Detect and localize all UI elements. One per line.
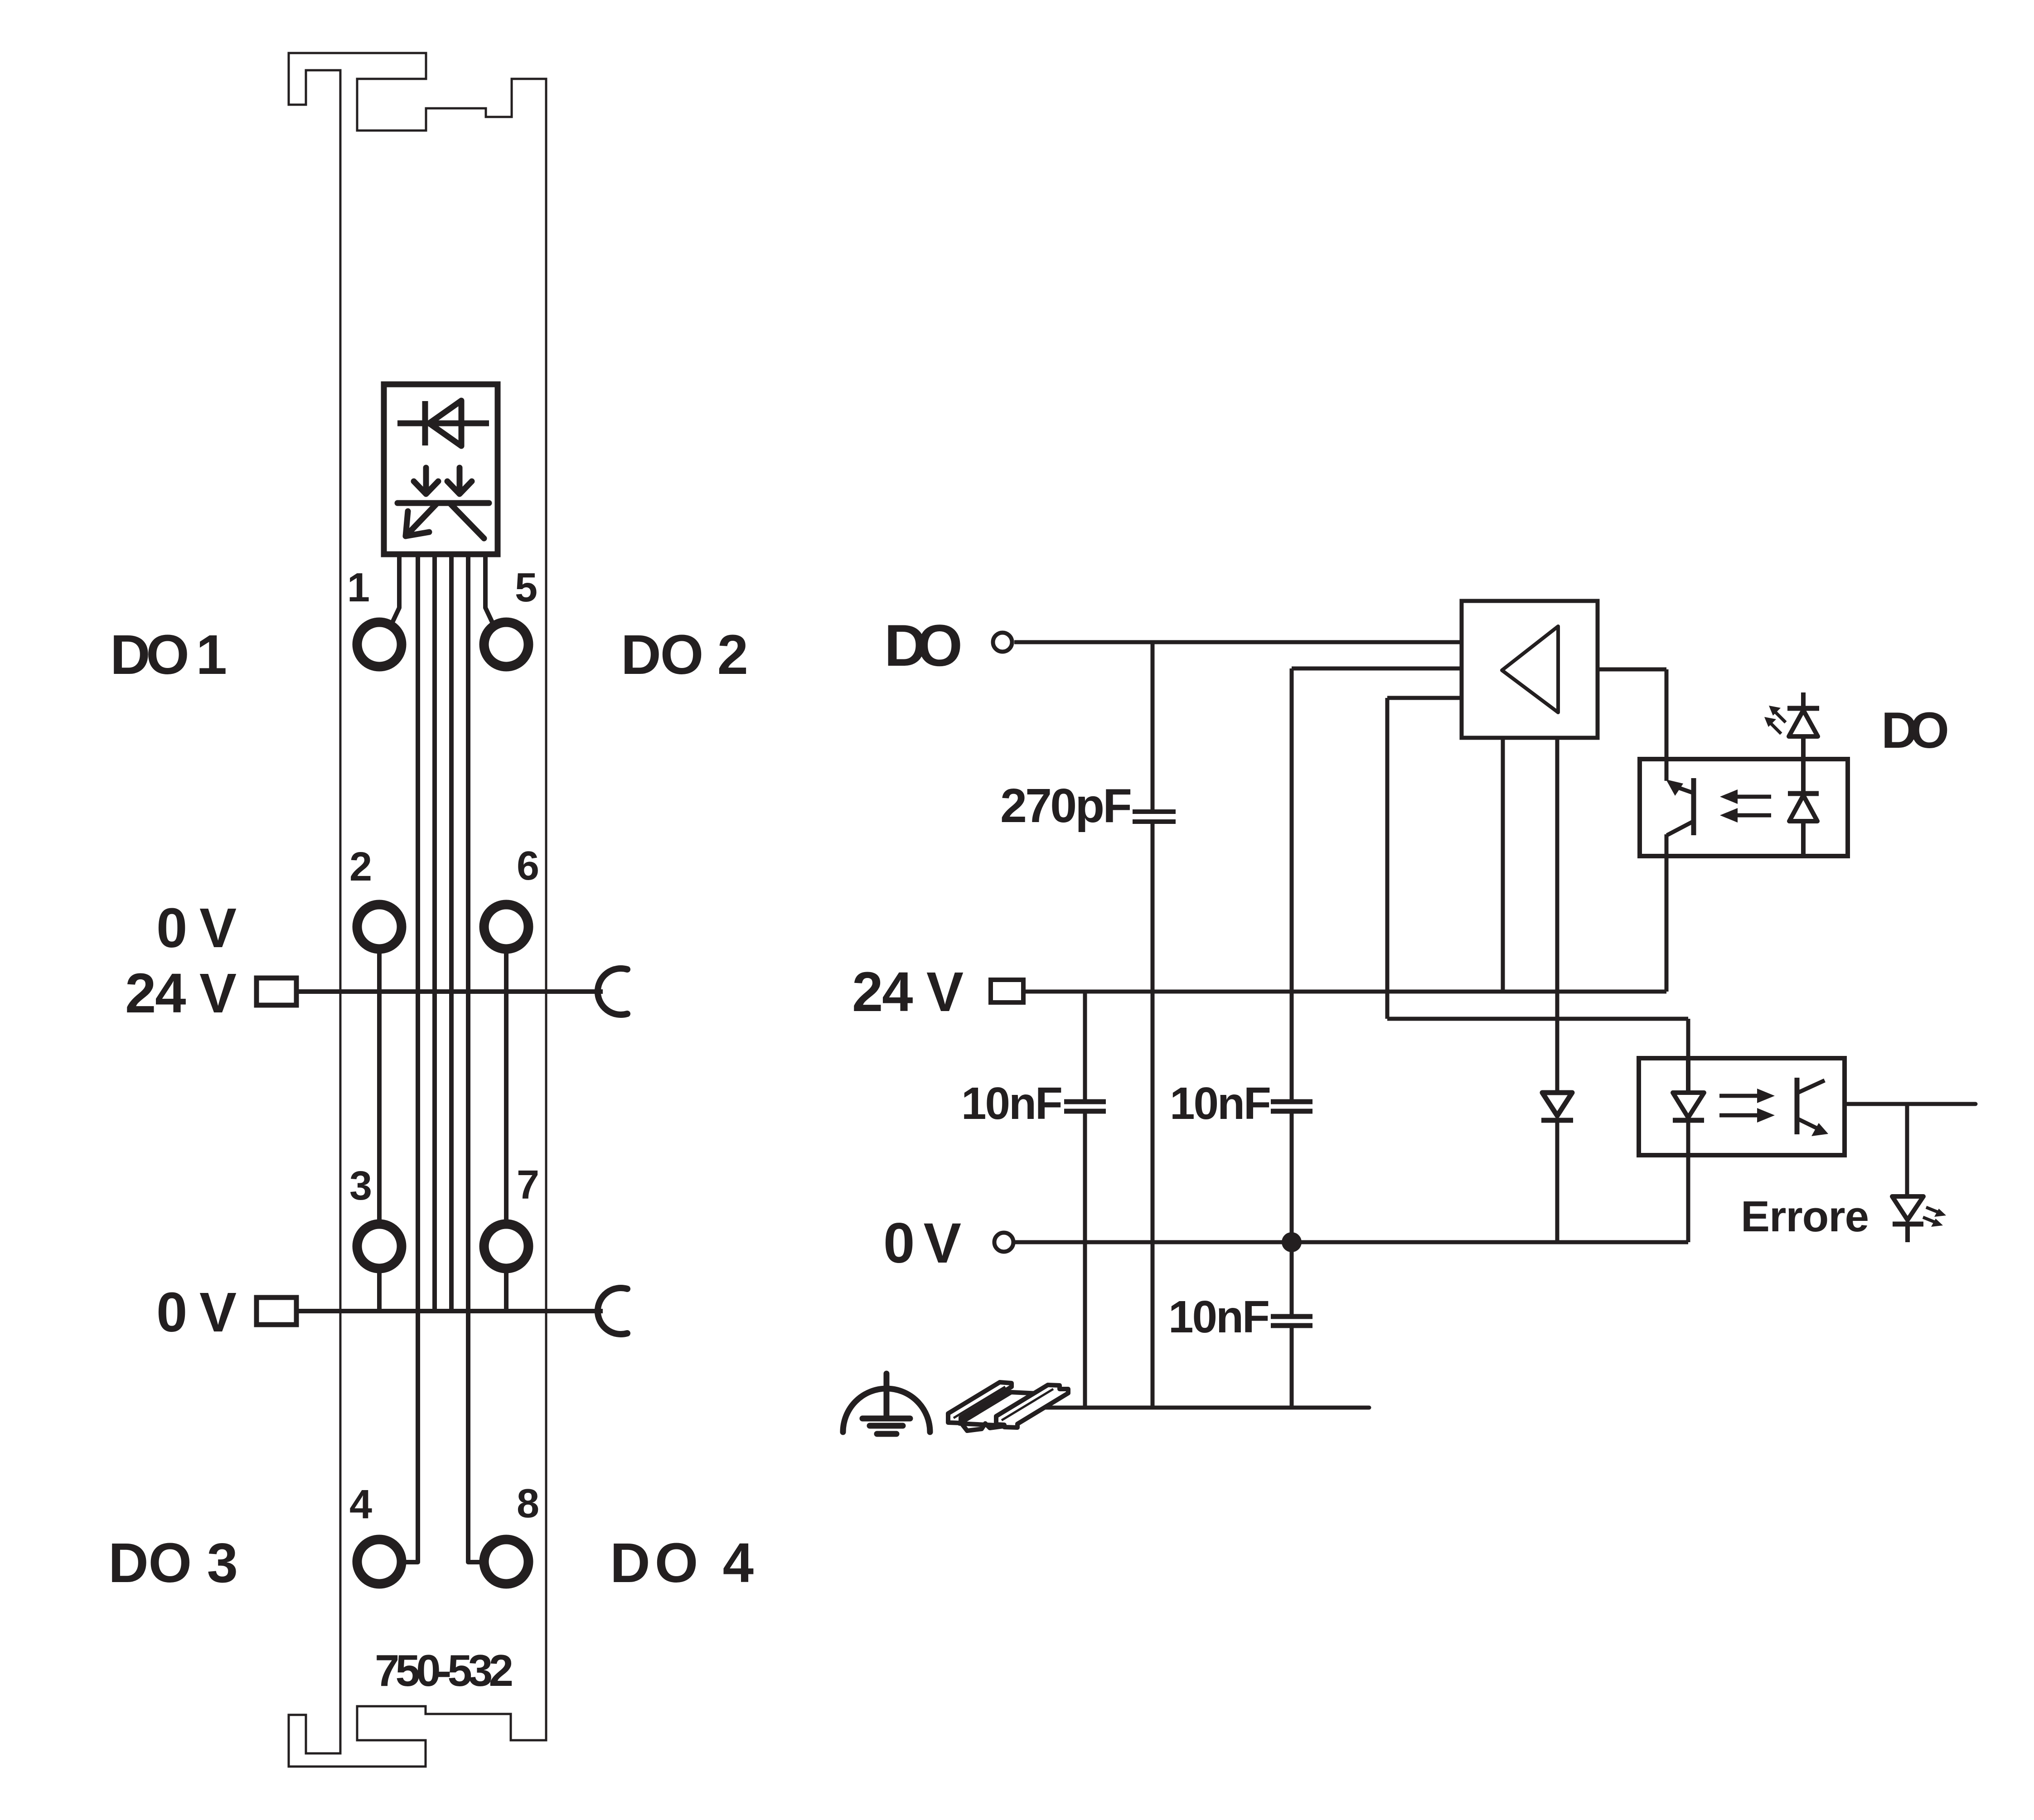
24V power jumper contact (square) <box>257 978 296 1005</box>
contact 6 <box>484 905 528 949</box>
wire between C3 and C4 <box>1290 1111 1294 1317</box>
capacitor C4 10nF <box>1271 1317 1312 1326</box>
wire amplifier output <box>1598 669 1666 781</box>
0V rail wire <box>1015 1240 1688 1244</box>
module outline <box>289 53 546 1767</box>
0V bus wire <box>296 1309 603 1313</box>
24V power jumper contact (arc) <box>598 968 627 1015</box>
amplifier triangle <box>1502 626 1558 712</box>
wire 270pF branch lower <box>1151 822 1155 1408</box>
wire LED D5 cathode to 0V rail <box>1686 1120 1690 1242</box>
light arrows of LED D4 <box>1764 706 1786 734</box>
earth ground symbol <box>843 1374 930 1434</box>
contact 5 <box>484 622 528 667</box>
wire pin1 from U1 to contact 1 <box>392 554 399 624</box>
svg-text:5: 5 <box>515 565 538 610</box>
svg-text:DO: DO <box>1881 702 1949 759</box>
svg-text:DO 2: DO 2 <box>621 624 748 686</box>
wire pin2 from U1 to contact 4 <box>405 554 418 1562</box>
light arrows into Q1 <box>1720 789 1771 823</box>
capacitor C3 10nF <box>1271 1102 1312 1111</box>
svg-text:10nF: 10nF <box>961 1078 1063 1129</box>
terminal DO (open circle) <box>993 633 1012 652</box>
svg-text:8: 8 <box>517 1481 539 1526</box>
svg-text:3: 3 <box>349 1163 372 1209</box>
wire contact 7 to 0V rail <box>504 1272 508 1311</box>
wire pin3 from U1 to 0V rail <box>432 554 437 1311</box>
svg-text:1: 1 <box>347 565 370 610</box>
amplifier box U2 <box>1462 601 1598 738</box>
wire phototransistor emitter to 24V rail <box>1665 834 1669 992</box>
wire pin4 from U1 to 0V rail <box>449 554 454 1311</box>
light arrows of LED D6 <box>1923 1207 1946 1227</box>
light arrows from D5 <box>1719 1089 1775 1123</box>
svg-text:24 V: 24 V <box>852 961 964 1023</box>
phototransistor Q2 <box>1797 1078 1828 1136</box>
diode D1 (suppressor diode inside U1) <box>397 401 489 446</box>
svg-text:0 V: 0 V <box>156 897 237 959</box>
svg-text:6: 6 <box>517 843 539 889</box>
ground rail wire <box>1043 1406 1369 1410</box>
wire pin5 from U1 to contact 8 <box>468 554 480 1562</box>
LED D4 (DO indicator) <box>1787 692 1819 760</box>
wire amplifier power to 24V rail <box>1501 738 1505 992</box>
junction node on 0V rail <box>1282 1232 1302 1252</box>
LED D6 (error indicator) <box>1892 1196 1923 1242</box>
contact 1 <box>357 622 402 667</box>
svg-text:270pF: 270pF <box>1000 779 1132 833</box>
svg-text:0 V: 0 V <box>156 1282 237 1344</box>
capacitor C2 10nF <box>1064 1102 1106 1111</box>
diode D2 <box>1541 1093 1573 1120</box>
wire amplifier input 3 to error optocoupler <box>1387 698 1688 1058</box>
wire to error LED <box>1905 1104 1909 1196</box>
svg-text:750-532: 750-532 <box>375 1646 513 1695</box>
svg-text:10nF: 10nF <box>1168 1292 1270 1342</box>
0V power jumper contact (arc) <box>598 1288 627 1334</box>
wire 10nF branch 1 upper <box>1083 992 1087 1102</box>
optocoupler OK1 box (DO) <box>1640 759 1848 856</box>
wire 24V to amplifier input 2 <box>1292 668 1462 1102</box>
contact 7 <box>484 1224 528 1268</box>
terminal 24V (square) <box>991 980 1023 1002</box>
protection circuit box U1 <box>384 384 498 554</box>
contact 3 <box>357 1224 402 1268</box>
24V bus wire <box>296 989 603 994</box>
optocoupler OK2 box (error) <box>1639 1058 1845 1155</box>
wire pin6 from U1 to contact 5 <box>485 554 493 624</box>
24V rail wire <box>1023 990 1666 994</box>
svg-text:2: 2 <box>349 844 372 890</box>
svg-text:DO 4: DO 4 <box>610 1532 754 1594</box>
svg-text:DO 1: DO 1 <box>110 624 227 686</box>
svg-text:24 V: 24 V <box>125 963 237 1025</box>
wire diode D2 to 0V rail <box>1555 1120 1559 1242</box>
wire DO to amplifier <box>1014 640 1462 644</box>
svg-text:10nF: 10nF <box>1170 1078 1271 1129</box>
LED D3 inside OK1 <box>1788 759 1819 856</box>
wire output of OK2 <box>1845 1102 1976 1106</box>
wire C4 to ground rail <box>1290 1326 1294 1408</box>
svg-text:DO: DO <box>884 612 963 678</box>
DIN rail symbol <box>948 1382 1068 1431</box>
svg-text:7: 7 <box>517 1162 539 1208</box>
wire 10nF branch 1 lower <box>1083 1111 1087 1408</box>
svg-text:4: 4 <box>349 1482 372 1527</box>
0V power jumper contact (square) <box>257 1297 296 1325</box>
contact 4 <box>357 1539 402 1584</box>
contact 8 <box>484 1539 528 1584</box>
terminal 0V (open circle) <box>994 1233 1013 1252</box>
wire contact 6 to contact 7 <box>504 953 508 1220</box>
TVS suppressor symbol inside U1 <box>397 468 489 538</box>
phototransistor Q1 <box>1666 778 1694 835</box>
wire 270pF branch upper <box>1151 642 1155 812</box>
svg-text:DO 3: DO 3 <box>108 1532 238 1594</box>
svg-text:Errore: Errore <box>1741 1192 1869 1241</box>
wire amplifier to diode branch <box>1555 738 1559 1093</box>
wire contact 3 to 0V rail <box>377 1272 382 1311</box>
capacitor C1 270pF <box>1133 812 1176 822</box>
LED D5 inside OK2 <box>1673 1058 1704 1120</box>
contact 2 <box>357 905 402 949</box>
wire contact 2 to contact 3 <box>377 953 382 1220</box>
svg-text:0 V: 0 V <box>883 1212 961 1275</box>
